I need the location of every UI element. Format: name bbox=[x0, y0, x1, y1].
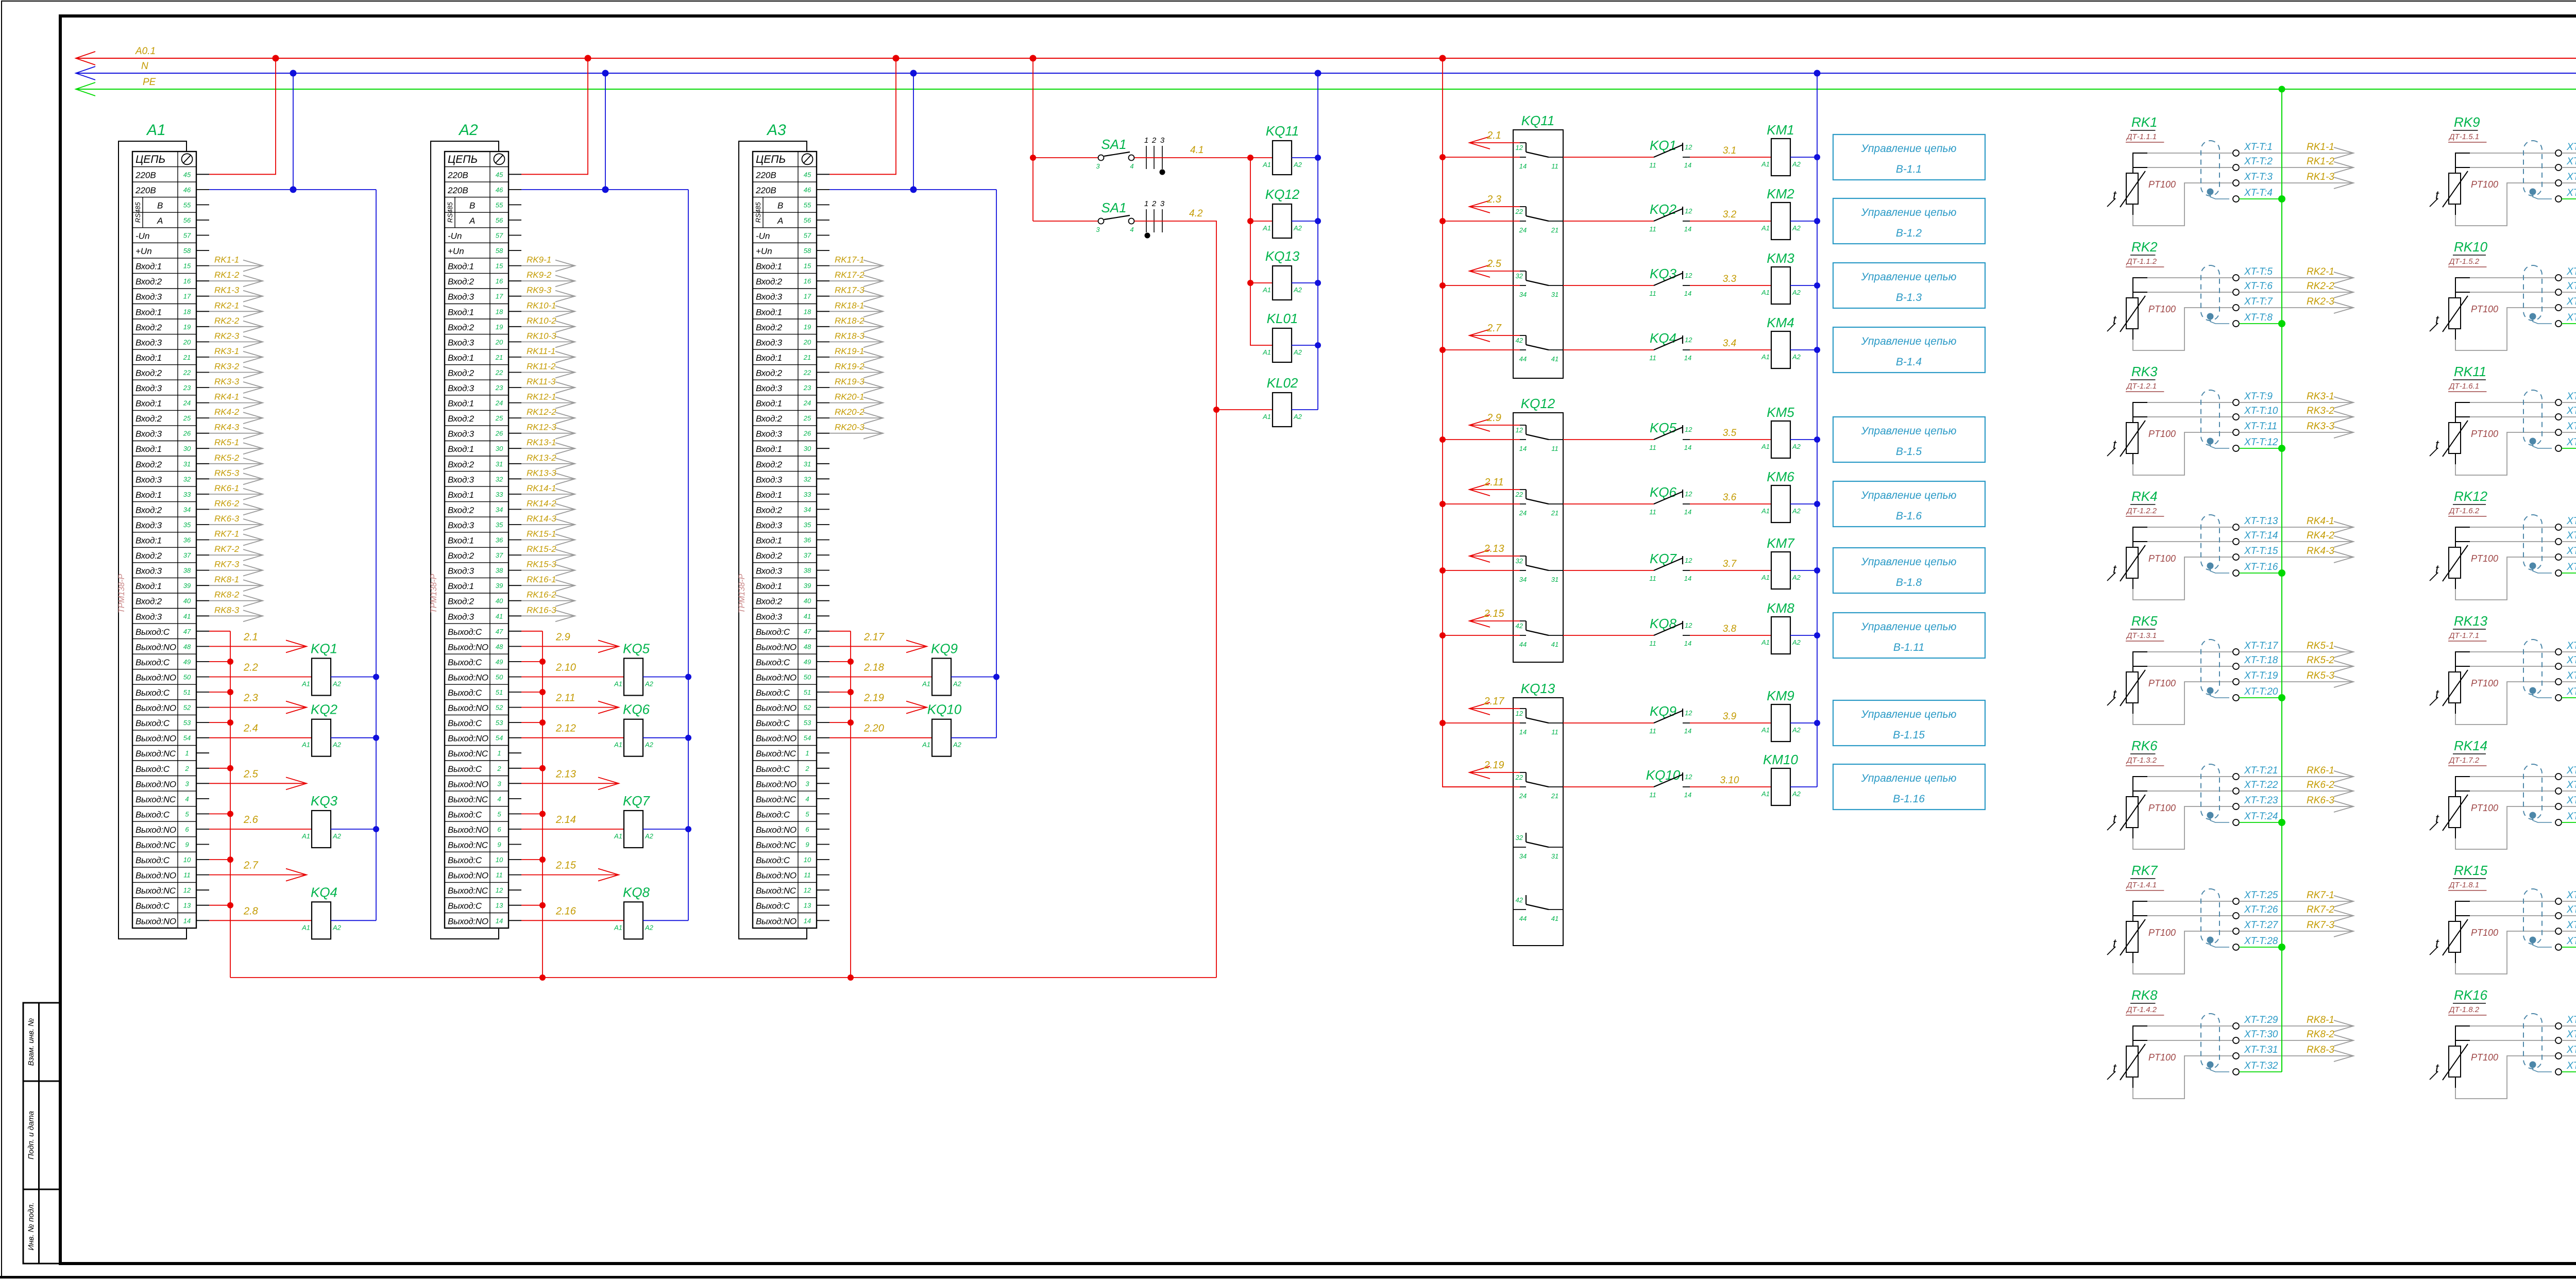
svg-text:RK12: RK12 bbox=[2454, 489, 2488, 504]
junction on A0.1 bus at contact column bbox=[1439, 55, 1446, 62]
terminal XT-T:62 bbox=[2555, 1037, 2562, 1044]
svg-text:A1: A1 bbox=[922, 680, 930, 688]
wire RK3-1 with off-sheet arrow bbox=[209, 357, 263, 358]
svg-text:38: 38 bbox=[496, 567, 503, 575]
svg-text:32: 32 bbox=[804, 475, 811, 483]
load box Управление цепью В-1.15 bbox=[1833, 700, 1985, 746]
svg-text:23: 23 bbox=[803, 384, 811, 392]
sensor wire 3 of RK16 bbox=[2455, 1077, 2456, 1088]
svg-text:RK8-1: RK8-1 bbox=[2307, 1015, 2334, 1025]
temperature sensor block RK12 bbox=[2430, 489, 2576, 600]
svg-text:KQ13: KQ13 bbox=[1521, 681, 1555, 696]
svg-text:RK6-3: RK6-3 bbox=[214, 514, 240, 524]
svg-text:ТРМ138-Р: ТРМ138-Р bbox=[117, 574, 126, 613]
svg-text:KQ11: KQ11 bbox=[1266, 123, 1299, 139]
svg-text:XT-T:7: XT-T:7 bbox=[2244, 296, 2273, 307]
svg-text:RK5-1: RK5-1 bbox=[214, 437, 239, 447]
svg-text:RS485: RS485 bbox=[134, 202, 142, 223]
svg-text:19: 19 bbox=[183, 323, 191, 331]
wire RK16-2 off-sheet arrow bbox=[2562, 1040, 2576, 1041]
bus PE left arrow bbox=[76, 82, 95, 96]
terminal XT-T:63 bbox=[2555, 1053, 2562, 1059]
svg-text:4.2: 4.2 bbox=[1189, 208, 1203, 219]
svg-text:45: 45 bbox=[183, 171, 191, 178]
svg-text:RK8-2: RK8-2 bbox=[214, 590, 240, 600]
changeover contact in block row 6 bbox=[1526, 490, 1527, 499]
svg-text:Вход:3: Вход:3 bbox=[756, 475, 783, 484]
contact block outline KQ11 bbox=[1513, 130, 1563, 378]
svg-text:3.7: 3.7 bbox=[1723, 559, 1737, 569]
unused contact KQ13.31 bbox=[1513, 847, 1526, 848]
junction PE vertical RK4 bbox=[2278, 569, 2285, 577]
wire 2.8 from A1 to relay coil KQ4 A1 bbox=[209, 920, 312, 921]
svg-text:Вход:2: Вход:2 bbox=[448, 597, 474, 607]
sensor wire 1 of RK11 bbox=[2455, 402, 2470, 423]
svg-text:RK13-2: RK13-2 bbox=[527, 453, 556, 463]
svg-text:32: 32 bbox=[183, 475, 191, 483]
terminal XT-T:50 bbox=[2555, 663, 2562, 669]
svg-text:A2: A2 bbox=[1792, 353, 1801, 361]
svg-text:11: 11 bbox=[1649, 575, 1656, 582]
RTD element PT100 of RK15 bbox=[2449, 921, 2461, 952]
terminal XT-T:21 bbox=[2233, 773, 2239, 780]
terminal XT-T:26 bbox=[2233, 913, 2239, 919]
wire 2.4 from A1 to relay coil KQ2 A1 bbox=[209, 737, 312, 738]
svg-text:34: 34 bbox=[496, 506, 503, 513]
svg-text:RK2-2: RK2-2 bbox=[214, 316, 240, 326]
svg-text:53: 53 bbox=[183, 719, 191, 727]
svg-text:41: 41 bbox=[1551, 355, 1558, 363]
junction N drop / terminal-46 wire of A1 bbox=[290, 186, 297, 193]
svg-text:22: 22 bbox=[1515, 208, 1523, 215]
svg-text:XT-T:57: XT-T:57 bbox=[2566, 890, 2576, 901]
wire RK14-3 with off-sheet arrow bbox=[521, 524, 575, 525]
temperature sensor block RK15 bbox=[2430, 863, 2576, 974]
wire coil KQ4 A2 to N vertical bbox=[331, 920, 376, 921]
wire RK3-2 with off-sheet arrow bbox=[209, 372, 263, 373]
svg-text:22: 22 bbox=[1515, 773, 1523, 781]
wire RK7-1 with off-sheet arrow bbox=[209, 540, 263, 541]
wire RK9-3 with off-sheet arrow bbox=[521, 296, 575, 297]
svg-text:2.6: 2.6 bbox=[243, 814, 259, 826]
svg-text:9: 9 bbox=[185, 841, 189, 849]
wire RK12-3 off-sheet arrow bbox=[2562, 557, 2576, 558]
wire 2.17 to TPM (off-sheet arrow) bbox=[1469, 708, 1520, 709]
wire RK13-3 with off-sheet arrow bbox=[521, 478, 575, 479]
svg-text:Выход:NC: Выход:NC bbox=[135, 840, 176, 850]
svg-text:42: 42 bbox=[1516, 896, 1523, 904]
svg-text:PT100: PT100 bbox=[2471, 553, 2498, 564]
svg-text:38: 38 bbox=[183, 567, 191, 575]
sensor wire 2 of RK5 bbox=[2133, 666, 2147, 667]
relay coil KL02 bbox=[1263, 409, 1273, 410]
wire Выход:C 47 of A2 to common vertical bbox=[521, 631, 543, 632]
svg-text:11: 11 bbox=[1551, 728, 1558, 736]
svg-text:A2: A2 bbox=[1293, 224, 1302, 232]
svg-text:XT-T:17: XT-T:17 bbox=[2244, 641, 2279, 651]
svg-text:XT-T:13: XT-T:13 bbox=[2244, 516, 2278, 527]
relay coil KL01 bbox=[1263, 345, 1273, 346]
svg-text:A1: A1 bbox=[1262, 224, 1271, 232]
terminal XT-T:29 bbox=[2233, 1023, 2239, 1029]
changeover contact in block row 3 bbox=[1526, 271, 1527, 280]
wire from A0.1 bus down to SA1 bbox=[1032, 58, 1033, 221]
svg-text:Выход:C: Выход:C bbox=[448, 688, 482, 698]
svg-text:46: 46 bbox=[183, 186, 191, 194]
temperature sensor block RK1 bbox=[2107, 114, 2353, 226]
svg-text:RK16-1: RK16-1 bbox=[527, 575, 556, 584]
terminal table A3 bbox=[753, 152, 817, 928]
svg-text:21: 21 bbox=[803, 354, 811, 361]
wire RK2-2 off-sheet arrow bbox=[2239, 292, 2353, 293]
svg-text:RK2: RK2 bbox=[2131, 239, 2158, 255]
terminal XT-T:7 bbox=[2233, 305, 2239, 311]
wire RK15-1 off-sheet arrow bbox=[2562, 901, 2576, 902]
svg-text:KQ9: KQ9 bbox=[931, 641, 958, 657]
wire RK7-2 with off-sheet arrow bbox=[209, 554, 263, 556]
svg-text:XT-T:54: XT-T:54 bbox=[2566, 780, 2576, 790]
rows RS485 B/A of A3 bbox=[762, 197, 764, 228]
svg-text:ДТ-1.2.2: ДТ-1.2.2 bbox=[2126, 507, 2157, 515]
svg-text:34: 34 bbox=[1519, 852, 1527, 860]
wire RK13-3 off-sheet arrow bbox=[2562, 681, 2576, 682]
svg-text:Выход:C: Выход:C bbox=[135, 855, 170, 865]
svg-text:XT-T:12: XT-T:12 bbox=[2244, 437, 2278, 448]
svg-text:ДТ-1.6.1: ДТ-1.6.1 bbox=[2448, 382, 2479, 391]
svg-text:A2: A2 bbox=[1293, 413, 1302, 420]
wire RK4-2 off-sheet arrow bbox=[2239, 541, 2353, 542]
RTD element PT100 of RK13 bbox=[2449, 672, 2461, 703]
bus A0.1 (phase) wire bbox=[76, 58, 2576, 59]
wire block to contact KQ8 bbox=[1563, 635, 1654, 636]
RTD element PT100 of RK2 bbox=[2126, 298, 2138, 329]
svg-text:Вход:2: Вход:2 bbox=[135, 277, 162, 287]
selector position indicator 1 2 3 bbox=[1146, 146, 1147, 169]
svg-text:Выход:NC: Выход:NC bbox=[756, 886, 796, 896]
terminal XT-T:6 bbox=[2233, 289, 2239, 295]
junction phase vertical row 3 bbox=[1439, 282, 1446, 289]
temperature sensor block RK10 bbox=[2430, 239, 2576, 350]
svg-text:2.11: 2.11 bbox=[1484, 477, 1503, 488]
contactor coil KM8 bbox=[1771, 617, 1790, 654]
svg-text:5: 5 bbox=[805, 810, 809, 818]
svg-text:RK6-2: RK6-2 bbox=[2307, 780, 2334, 790]
relay coil KQ11 bbox=[1263, 157, 1273, 158]
svg-text:11: 11 bbox=[1551, 162, 1558, 170]
svg-text:Вход:3: Вход:3 bbox=[135, 612, 162, 621]
svg-text:56: 56 bbox=[496, 216, 503, 224]
RTD element PT100 of RK14 bbox=[2449, 797, 2461, 828]
junction SA1 branch bbox=[1030, 155, 1036, 161]
terminal pin stubs of A2 bbox=[509, 174, 521, 175]
wire RK19-1 with off-sheet arrow bbox=[829, 357, 883, 358]
svg-text:2.5: 2.5 bbox=[1486, 258, 1502, 270]
svg-text:33: 33 bbox=[496, 491, 503, 498]
svg-text:RK6: RK6 bbox=[2131, 738, 2158, 753]
wire RK9-1 off-sheet arrow bbox=[2562, 153, 2576, 154]
svg-text:Выход:NO: Выход:NO bbox=[448, 779, 488, 789]
svg-text:12: 12 bbox=[1685, 336, 1692, 344]
wire coil KL01 A2 to N vertical bbox=[1292, 345, 1318, 346]
svg-text:ДТ-1.8.2: ДТ-1.8.2 bbox=[2448, 1005, 2480, 1014]
svg-text:A1: A1 bbox=[614, 923, 622, 931]
wire 2.19 off-sheet arrow from A3 bbox=[829, 707, 927, 708]
wire RK14-2 off-sheet arrow bbox=[2562, 790, 2576, 792]
sensor wire 3 of RK7 bbox=[2132, 952, 2133, 963]
svg-text:Вход:3: Вход:3 bbox=[448, 520, 474, 530]
svg-text:3.10: 3.10 bbox=[1720, 775, 1739, 786]
terminal XT-T:47 bbox=[2555, 554, 2562, 560]
junction at N vertical row KQ9 bbox=[993, 674, 999, 680]
svg-text:RK12-2: RK12-2 bbox=[527, 407, 556, 417]
svg-text:Вход:2: Вход:2 bbox=[756, 460, 783, 469]
svg-text:34: 34 bbox=[1519, 291, 1527, 298]
junction phase vertical row 2 bbox=[1439, 218, 1446, 224]
relay coil KQ13 bbox=[1263, 282, 1273, 283]
wire coil KQ13 A2 to N vertical bbox=[1292, 282, 1318, 283]
svg-text:KQ9: KQ9 bbox=[1650, 703, 1676, 719]
svg-text:-Un: -Un bbox=[135, 231, 149, 241]
sensor wire 3 of RK1 bbox=[2132, 204, 2133, 215]
sensor wire 2 of RK4 bbox=[2133, 541, 2147, 542]
RTD element PT100 of RK1 bbox=[2126, 173, 2138, 204]
svg-text:Вход:2: Вход:2 bbox=[448, 505, 474, 515]
svg-text:11: 11 bbox=[1649, 727, 1656, 735]
junction phase vertical row 6 bbox=[1439, 501, 1446, 507]
svg-text:Вход:1: Вход:1 bbox=[756, 307, 782, 317]
rows RS485 B/A of A2 bbox=[454, 197, 455, 228]
svg-text:3.2: 3.2 bbox=[1723, 209, 1737, 220]
svg-text:XT-T:44: XT-T:44 bbox=[2566, 437, 2576, 448]
svg-text:Вход:2: Вход:2 bbox=[448, 551, 474, 561]
bus N (neutral) wire bbox=[76, 73, 2576, 74]
svg-text:XT-T:39: XT-T:39 bbox=[2566, 296, 2576, 307]
temperature sensor block RK11 bbox=[2430, 364, 2576, 475]
load box Управление цепью В-1.11 bbox=[1833, 613, 1985, 658]
svg-text:RK1-2: RK1-2 bbox=[214, 270, 240, 280]
svg-text:220В: 220В bbox=[447, 170, 468, 180]
sensor wire 1 of RK1 bbox=[2133, 153, 2147, 173]
svg-text:RK19-1: RK19-1 bbox=[835, 346, 865, 356]
junction N vertical at KM3 bbox=[1814, 282, 1820, 289]
sensor wire 3 of RK3 bbox=[2132, 453, 2133, 464]
svg-text:2.8: 2.8 bbox=[243, 905, 258, 917]
svg-text:XT-T:26: XT-T:26 bbox=[2244, 904, 2278, 915]
svg-text:Выход:C: Выход:C bbox=[756, 627, 790, 637]
svg-text:Выход:NC: Выход:NC bbox=[448, 840, 488, 850]
svg-text:14: 14 bbox=[1684, 444, 1691, 451]
wire N from N bus to A1 terminal 46 bbox=[293, 73, 294, 190]
svg-text:A2: A2 bbox=[458, 122, 478, 139]
svg-text:RK11: RK11 bbox=[2454, 364, 2486, 379]
wire phase to contact row 8 bbox=[1443, 635, 1520, 636]
wire RK4-2 with off-sheet arrow bbox=[209, 417, 263, 418]
svg-text:Выход:C: Выход:C bbox=[448, 855, 482, 865]
wire N from N bus to A2 terminal 46 bbox=[605, 73, 606, 190]
wire RK1-1 off-sheet arrow bbox=[2239, 153, 2353, 154]
svg-text:51: 51 bbox=[183, 688, 191, 696]
svg-text:XT-T:46: XT-T:46 bbox=[2566, 530, 2576, 541]
svg-text:В-1.15: В-1.15 bbox=[1893, 729, 1925, 741]
wire Выход:C row to common vertical of A2 bbox=[521, 692, 543, 693]
svg-text:Выход:NO: Выход:NO bbox=[135, 916, 176, 926]
svg-text:RK8-3: RK8-3 bbox=[2307, 1045, 2334, 1055]
svg-text:Вход:3: Вход:3 bbox=[756, 383, 783, 393]
svg-text:25: 25 bbox=[803, 414, 811, 422]
svg-text:13: 13 bbox=[183, 902, 191, 910]
svg-text:14: 14 bbox=[1684, 575, 1691, 582]
svg-text:RK9-1: RK9-1 bbox=[527, 255, 551, 265]
svg-text:Вход:3: Вход:3 bbox=[135, 383, 162, 393]
svg-text:N: N bbox=[141, 61, 148, 72]
wire phase to contact row 7 bbox=[1443, 570, 1520, 571]
junction on N bus at x=1773 bbox=[910, 70, 917, 77]
svg-text:14: 14 bbox=[183, 917, 191, 924]
svg-text:Подп. и дата: Подп. и дата bbox=[27, 1111, 36, 1159]
svg-text:XT-T:59: XT-T:59 bbox=[2566, 920, 2576, 931]
junction at N vertical row KQ5 bbox=[685, 674, 691, 680]
sensor wire 3 of RK11 bbox=[2455, 453, 2456, 464]
svg-text:RK20-3: RK20-3 bbox=[835, 423, 865, 432]
svg-text:2.17: 2.17 bbox=[863, 631, 885, 643]
svg-text:2.1: 2.1 bbox=[243, 631, 258, 643]
sensor wire 3 of RK6 bbox=[2132, 828, 2133, 838]
svg-text:1: 1 bbox=[1144, 136, 1148, 145]
svg-text:Вход:1: Вход:1 bbox=[756, 399, 782, 409]
svg-text:RK16-3: RK16-3 bbox=[527, 605, 556, 615]
svg-text:XT-T:40: XT-T:40 bbox=[2566, 312, 2576, 323]
svg-text:44: 44 bbox=[1519, 641, 1527, 648]
svg-text:12: 12 bbox=[804, 886, 811, 894]
svg-text:3: 3 bbox=[185, 780, 189, 787]
terminal XT-T:44 bbox=[2555, 445, 2562, 451]
svg-text:Выход:C: Выход:C bbox=[135, 718, 170, 728]
wire RK6-3 with off-sheet arrow bbox=[209, 524, 263, 525]
terminal XT-T:46 bbox=[2555, 538, 2562, 545]
junction PE vertical RK3 bbox=[2278, 445, 2285, 452]
svg-text:50: 50 bbox=[496, 674, 503, 681]
svg-text:35: 35 bbox=[496, 521, 503, 529]
svg-text:XT-T:53: XT-T:53 bbox=[2566, 765, 2576, 776]
junction N vertical at KQ13 bbox=[1315, 280, 1321, 286]
svg-text:ДТ-1.4.1: ДТ-1.4.1 bbox=[2126, 881, 2157, 889]
svg-text:A2: A2 bbox=[645, 741, 654, 749]
svg-text:2.3: 2.3 bbox=[1486, 194, 1501, 205]
svg-text:ДТ-1.1.2: ДТ-1.1.2 bbox=[2126, 257, 2157, 266]
svg-text:55: 55 bbox=[804, 201, 811, 209]
relay coil KQ3 bbox=[312, 811, 331, 848]
wire 2.9 to TPM (off-sheet arrow) bbox=[1469, 425, 1520, 426]
RTD element PT100 of RK12 bbox=[2449, 547, 2461, 578]
svg-text:XT-T:55: XT-T:55 bbox=[2566, 795, 2576, 806]
svg-text:14: 14 bbox=[804, 917, 811, 924]
wire RK7-3 off-sheet arrow bbox=[2239, 931, 2353, 932]
svg-text:RK7: RK7 bbox=[2131, 863, 2158, 878]
svg-text:Выход:C: Выход:C bbox=[135, 810, 170, 819]
svg-text:11: 11 bbox=[1649, 639, 1656, 647]
terminal XT-T:9 bbox=[2233, 399, 2239, 406]
svg-text:17: 17 bbox=[496, 293, 503, 300]
svg-text:KQ8: KQ8 bbox=[623, 884, 650, 900]
svg-text:18: 18 bbox=[804, 308, 811, 315]
svg-text:5: 5 bbox=[185, 810, 189, 818]
svg-text:35: 35 bbox=[804, 521, 811, 529]
sensor wire 1 of RK5 bbox=[2133, 652, 2147, 672]
cable shield of RK9 bbox=[2523, 141, 2542, 196]
svg-text:A1: A1 bbox=[922, 741, 930, 749]
terminal table A1 bbox=[132, 152, 196, 928]
svg-text:Выход:NO: Выход:NO bbox=[756, 825, 796, 835]
svg-text:220В: 220В bbox=[135, 186, 156, 195]
svg-text:RK14-1: RK14-1 bbox=[527, 483, 556, 493]
svg-text:RK5-1: RK5-1 bbox=[2307, 641, 2334, 651]
contactor coil KM4 bbox=[1771, 331, 1790, 368]
svg-text:4: 4 bbox=[497, 795, 501, 803]
sensor wire 1 of RK4 bbox=[2133, 527, 2147, 547]
svg-text:KM6: KM6 bbox=[1767, 469, 1794, 484]
svg-text:KQ8: KQ8 bbox=[1650, 616, 1677, 631]
svg-text:A2: A2 bbox=[332, 680, 342, 688]
wire 3.9 contact KQ9 to coil KM9 bbox=[1690, 722, 1771, 723]
sensor wire 2 of RK3 bbox=[2133, 416, 2147, 417]
svg-text:Выход:NO: Выход:NO bbox=[448, 673, 488, 683]
svg-text:9: 9 bbox=[497, 841, 501, 849]
terminal XT-T:55 bbox=[2555, 803, 2562, 810]
wire Выход:C 47 of A3 to common vertical bbox=[829, 631, 851, 632]
svg-text:KM7: KM7 bbox=[1767, 535, 1795, 551]
wire RK8-1 with off-sheet arrow bbox=[209, 585, 263, 586]
svg-text:58: 58 bbox=[804, 247, 811, 255]
svg-text:KL02: KL02 bbox=[1267, 375, 1298, 391]
svg-text:11: 11 bbox=[1551, 445, 1558, 452]
wire 3.8 contact KQ8 to coil KM8 bbox=[1690, 635, 1771, 636]
wire 2.5 to TPM (off-sheet arrow) bbox=[1469, 271, 1520, 272]
svg-text:2.20: 2.20 bbox=[863, 723, 884, 734]
wire 2.17 off-sheet arrow from A3 bbox=[829, 646, 927, 647]
contact block outline KQ12 bbox=[1513, 413, 1563, 662]
svg-text:41: 41 bbox=[1551, 915, 1558, 922]
svg-text:39: 39 bbox=[496, 582, 503, 590]
terminal XT-T:14 bbox=[2233, 538, 2239, 545]
svg-text:Вход:3: Вход:3 bbox=[448, 612, 474, 621]
junction 4.1/KQ11 bbox=[1247, 155, 1253, 161]
wire RK18-1 with off-sheet arrow bbox=[829, 311, 883, 312]
RTD element PT100 of RK3 bbox=[2126, 423, 2138, 453]
svg-text:32: 32 bbox=[496, 475, 503, 483]
svg-text:3.4: 3.4 bbox=[1723, 338, 1736, 349]
terminal XT-T:61 bbox=[2555, 1023, 2562, 1029]
svg-text:26: 26 bbox=[183, 430, 191, 437]
svg-text:Вход:2: Вход:2 bbox=[756, 277, 783, 287]
RTD element PT100 of RK16 bbox=[2449, 1046, 2461, 1077]
svg-text:Выход:NO: Выход:NO bbox=[135, 871, 176, 881]
wire RK1-3 with off-sheet arrow bbox=[209, 296, 263, 297]
svg-text:24: 24 bbox=[1519, 226, 1527, 234]
svg-text:A2: A2 bbox=[1293, 348, 1302, 356]
svg-text:Вход:1: Вход:1 bbox=[448, 490, 474, 500]
svg-text:Вход:2: Вход:2 bbox=[756, 323, 783, 332]
svg-text:Вход:2: Вход:2 bbox=[135, 460, 162, 469]
wire RK9-1 with off-sheet arrow bbox=[521, 265, 575, 266]
wire coil KM10 A2 to N vertical bbox=[1790, 786, 1817, 787]
junction bbox=[848, 719, 854, 726]
junction bbox=[227, 765, 233, 771]
relay coil KQ2 bbox=[312, 719, 331, 756]
sensor wire 2 of RK14 bbox=[2455, 790, 2470, 792]
wire Выход:C row to common vertical of A3 bbox=[829, 722, 851, 723]
svg-text:XT-T:29: XT-T:29 bbox=[2244, 1015, 2278, 1025]
svg-text:KQ5: KQ5 bbox=[1650, 420, 1677, 435]
